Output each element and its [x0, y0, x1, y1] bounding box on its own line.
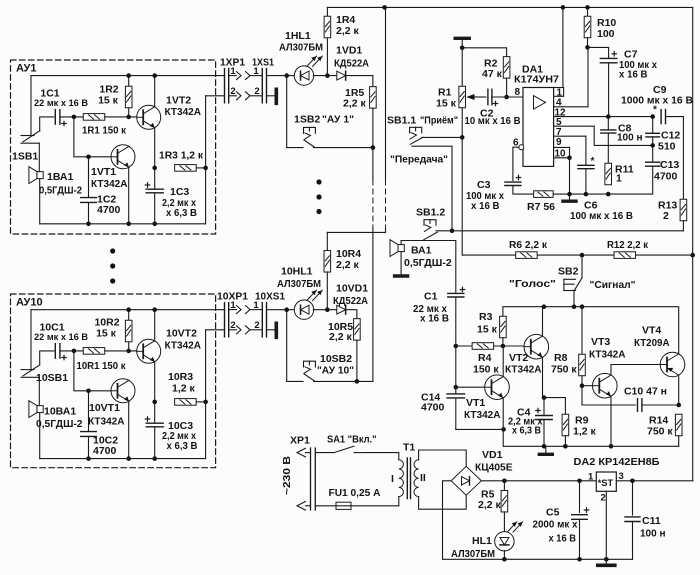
wire C14 to emitter rail — [456, 428, 504, 430]
plug XP1 — [310, 448, 312, 510]
wire VT3 emitter to bottom rail — [610, 397, 612, 447]
wire LED node down to switch 1SB2 — [286, 76, 288, 148]
wire R3 to R4 node — [502, 338, 504, 346]
svg-text:х 6,3 В: х 6,3 В — [167, 441, 198, 452]
resistor R4 — [456, 345, 472, 347]
resistor 10R1 — [83, 348, 105, 355]
svg-text:КТ342А: КТ342А — [88, 416, 125, 428]
wire terminal to node — [461, 40, 463, 48]
plug pin arrows — [297, 448, 306, 457]
subscriber unit box АУ10 — [11, 294, 216, 468]
capacitor C2 — [488, 89, 492, 105]
pushbutton 10SB2 — [287, 380, 303, 382]
svg-text:1: 1 — [253, 66, 259, 77]
svg-text:1ВА1: 1ВА1 — [47, 171, 73, 183]
svg-text:R3: R3 — [479, 311, 493, 323]
wire 1C1 to switch pivot — [40, 117, 54, 131]
speaker BA1 — [398, 245, 404, 252]
speaker 1ВА1 — [37, 172, 43, 179]
connector 1ХР1/1XS1 — [224, 69, 226, 103]
svg-text:10ВА1: 10ВА1 — [44, 406, 76, 418]
svg-text:1: 1 — [616, 173, 622, 185]
svg-text:КТ342А: КТ342А — [505, 364, 542, 376]
wire LED to diode — [313, 75, 337, 77]
svg-text:2,2 к: 2,2 к — [343, 97, 367, 109]
wire 10VT2 collector to top rail — [154, 310, 156, 341]
svg-text:150 к: 150 к — [473, 364, 499, 376]
svg-text:АУ10: АУ10 — [16, 297, 43, 309]
line terminal bar — [274, 323, 278, 337]
resistor 10R3 — [175, 399, 197, 406]
svg-text:КТ342А: КТ342А — [91, 178, 128, 190]
wire VT3 base node down to C10 — [582, 386, 635, 405]
capacitor C6 — [578, 165, 594, 168]
wire 1VT2 collector to top rail — [154, 76, 156, 107]
resistor 10R4 — [326, 232, 328, 250]
svg-text:DA2 КР142ЕН8Б: DA2 КР142ЕН8Б — [574, 456, 660, 468]
svg-text:VT2: VT2 — [509, 352, 528, 364]
svg-text:100: 100 — [597, 28, 615, 40]
wire VT3 base — [582, 385, 593, 387]
switch SB1.1 — [410, 127, 422, 133]
svg-text:1R3 1,2 к: 1R3 1,2 к — [159, 150, 204, 162]
transformer core — [406, 458, 408, 499]
resistor R6 — [516, 252, 538, 259]
capacitor C10 — [638, 399, 642, 412]
svg-text:C5: C5 — [546, 507, 560, 519]
svg-text:HL1: HL1 — [472, 535, 492, 547]
resistor R7 — [534, 191, 554, 198]
svg-text:10VD1: 10VD1 — [336, 283, 368, 295]
wire LED node down to 10SB2 — [286, 310, 288, 382]
wire R13 down to common wire — [682, 221, 684, 231]
capacitor C14 — [455, 387, 457, 429]
wire pin7 down through C6 — [585, 136, 587, 194]
wire amplifier bottom rail — [503, 445, 679, 447]
resistor R2 — [503, 57, 510, 79]
svg-text:R7 56: R7 56 — [527, 201, 555, 213]
resistor R3 — [500, 316, 507, 338]
wire top rail АУ1 — [31, 75, 225, 77]
svg-text:I: I — [391, 473, 394, 485]
transistor VT3 — [593, 373, 618, 398]
wire secondary top to bridge — [419, 450, 467, 466]
wire SB1.1 lower contact to SB1.2 node — [412, 146, 452, 231]
switch SA1 — [315, 452, 334, 454]
svg-text:750 к: 750 к — [551, 364, 577, 376]
wire VT3 collector to VT4 base — [611, 365, 661, 375]
wire left drop to switch 10SB1 — [30, 310, 32, 370]
svg-text:0,5ГДШ-2: 0,5ГДШ-2 — [39, 185, 82, 197]
svg-text:100 мк х 16 В: 100 мк х 16 В — [570, 211, 633, 222]
switch SB1.2 — [424, 220, 436, 226]
svg-text:VT4: VT4 — [642, 325, 661, 337]
svg-text:C6: C6 — [584, 200, 598, 212]
wire switch to speaker — [38, 377, 40, 405]
svg-text:SB1.2: SB1.2 — [416, 206, 445, 218]
fuse FU1 — [315, 505, 336, 507]
resistor 1R4 — [326, 7, 328, 75]
wire C13 down to ground wire — [651, 167, 653, 195]
svg-text:R8: R8 — [554, 352, 568, 364]
pin 5 — [554, 126, 653, 145]
svg-text:10VT1: 10VT1 — [89, 402, 120, 414]
resistor R14 — [675, 414, 682, 436]
wire bridge plus to DA2 — [481, 480, 596, 482]
transformer T1 secondary winding — [414, 460, 419, 497]
capacitor 10С2 — [88, 391, 90, 459]
wire C9 right and down to R13 — [666, 117, 684, 200]
svg-text:0,5ГДШ-2: 0,5ГДШ-2 — [404, 257, 452, 269]
wire R6-R12 row — [462, 254, 693, 256]
LED 10HL1 — [294, 300, 313, 319]
svg-text:2,2 к: 2,2 к — [478, 499, 502, 511]
wire VT4 collector up to voice wire — [678, 307, 680, 354]
wire node down to 10VT1 base — [74, 351, 112, 391]
svg-text:8: 8 — [515, 87, 521, 98]
svg-text:х 16 В: х 16 В — [619, 70, 648, 81]
wire common line to R13 — [452, 230, 683, 232]
resistor R9 — [562, 414, 569, 436]
pin 9 — [554, 146, 570, 148]
capacitor C9 — [661, 110, 665, 124]
resistor 1R2 — [128, 76, 130, 117]
svg-text:R12 2,2 к: R12 2,2 к — [607, 239, 649, 251]
wire pin1 to LED 10HL1 — [267, 309, 295, 311]
svg-text:*: * — [591, 156, 595, 167]
svg-text:47 к: 47 к — [482, 68, 503, 80]
wire bottom rail АУ10 — [40, 458, 206, 460]
capacitor C1 — [448, 293, 464, 297]
wire C1 right to node and 1R1 — [60, 116, 83, 118]
wire 10R5 down to node — [356, 340, 358, 381]
svg-text:1HL1: 1HL1 — [285, 30, 311, 42]
wire diode to 10R5 — [346, 310, 357, 319]
svg-text:"АУ 10": "АУ 10" — [317, 365, 354, 377]
wire SB1.2 lower contact to C1 line — [424, 241, 456, 293]
wire pin2 to line terminal — [267, 95, 275, 97]
svg-text:10R3: 10R3 — [168, 371, 193, 383]
wire R14 to bottom rail — [678, 436, 680, 447]
svg-text:VT3: VT3 — [591, 336, 610, 348]
svg-text:КД522А: КД522А — [334, 58, 369, 70]
svg-text:10R1 150 к: 10R1 150 к — [77, 360, 127, 372]
potentiometer R1 — [461, 48, 463, 87]
svg-text:1: 1 — [588, 472, 594, 483]
IC DA2 КР142ЕН8Б — [596, 472, 616, 491]
svg-text:4700: 4700 — [421, 402, 445, 414]
svg-text:10SB2: 10SB2 — [320, 353, 352, 365]
resistor R10 — [587, 7, 589, 16]
wire 1VT1 emitter to bottom rail — [128, 167, 130, 224]
line terminal bar top — [455, 37, 469, 40]
svg-text:R6 2,2 к: R6 2,2 к — [509, 239, 548, 251]
wire C1 right to node and 1R1 — [60, 350, 83, 352]
resistor 1R1 — [83, 114, 105, 121]
svg-text:C11: C11 — [642, 515, 661, 527]
svg-text:1VT1: 1VT1 — [91, 166, 116, 178]
svg-text:1: 1 — [230, 66, 236, 77]
svg-text:SB1.1: SB1.1 — [387, 114, 416, 126]
wire pin2 to line terminal — [267, 329, 275, 331]
svg-text:2,2 к: 2,2 к — [336, 25, 360, 37]
wire VT1 emitter down — [502, 398, 504, 446]
pin 10 compartment — [554, 147, 570, 157]
wire R8 to VT3 base node — [581, 376, 583, 386]
wire 10C1 to switch pivot — [40, 351, 54, 365]
svg-text:22 мк х 16 В: 22 мк х 16 В — [34, 332, 88, 343]
svg-text:R4: R4 — [478, 352, 492, 364]
wire R7 to ground node — [553, 193, 651, 195]
wire long line down to unit10 switch node — [372, 148, 374, 180]
wire 10VT2 emitter down through 10C3 — [154, 362, 156, 459]
wire pin1 up to rail — [563, 88, 565, 97]
transistor VT1 — [485, 375, 510, 400]
svg-text:0,5ГДШ-2: 0,5ГДШ-2 — [36, 418, 83, 430]
svg-text:1R1 150 к: 1R1 150 к — [82, 125, 127, 137]
ground bar BA1 — [395, 274, 408, 277]
svg-text:SB2: SB2 — [558, 266, 579, 278]
IC DA1 К174УН7 box — [523, 88, 554, 167]
wire SB2 contact down to voice wire — [573, 291, 575, 307]
svg-text:10 мк х 16 В: 10 мк х 16 В — [465, 116, 521, 127]
wire R2 to pin 8 — [506, 78, 508, 97]
svg-text:10SB1: 10SB1 — [36, 372, 68, 384]
wire right side vertical to pin2 — [205, 330, 207, 459]
wire node to R2 — [462, 48, 506, 57]
wire supply bottom rail — [504, 558, 632, 560]
svg-text:10HL1: 10HL1 — [281, 266, 313, 278]
svg-text:~230 В: ~230 В — [282, 456, 293, 495]
svg-text:4700: 4700 — [97, 204, 121, 216]
wire SB1.2 arm to node — [436, 230, 452, 232]
transistor 10VT1 — [111, 379, 135, 403]
svg-text:10: 10 — [555, 148, 567, 159]
svg-text:"Сигнал": "Сигнал" — [590, 279, 636, 291]
transistor VT2 — [524, 334, 549, 359]
wire VT2 emitter down to node A — [542, 358, 544, 398]
svg-text:2: 2 — [254, 86, 259, 97]
svg-text:х 16 В: х 16 В — [420, 314, 449, 325]
capacitor 1С3 — [146, 189, 163, 193]
svg-text:КТ342А: КТ342А — [464, 409, 501, 421]
svg-text:C13: C13 — [660, 159, 679, 171]
bridge rectifier VD1 — [451, 466, 481, 495]
wire pin4 up to R10 node — [587, 47, 589, 106]
svg-text:II: II — [420, 472, 426, 484]
pin 4 — [554, 106, 588, 108]
svg-text:15 к: 15 к — [477, 324, 498, 336]
svg-text:15 к: 15 к — [436, 98, 457, 110]
wire diode to 1R5 — [346, 76, 373, 87]
wire riser from top rail down to 10R4 — [385, 7, 387, 180]
capacitor C7 — [600, 58, 617, 62]
wire top rail АУ10 — [31, 309, 225, 311]
capacitor C8 — [607, 117, 609, 130]
svg-text:х 16 В: х 16 В — [549, 534, 577, 545]
wire right side vertical to pin2 — [205, 96, 207, 224]
svg-text:КТ342А: КТ342А — [165, 340, 202, 352]
wire C3 to R7 — [513, 186, 533, 195]
wire R10 node to C7 — [588, 47, 609, 58]
svg-text:10XS1: 10XS1 — [255, 290, 285, 302]
wire node A to R9 — [544, 398, 565, 415]
svg-text:10VT2: 10VT2 — [166, 328, 197, 340]
wire bridge minus to bottom rail — [443, 481, 505, 560]
pin lines and numbers right side — [554, 95, 564, 97]
wire switch to speaker — [38, 143, 40, 171]
transistor 1VT1 — [111, 145, 135, 169]
LED 1HL1 — [294, 66, 313, 85]
wire DA2 pin2 to ground — [605, 491, 607, 559]
wire HL1 to bottom rail — [503, 551, 505, 560]
svg-text:750 к: 750 к — [647, 426, 673, 438]
svg-text:1VT2: 1VT2 — [166, 95, 191, 107]
wire C1 line down to VT1 base — [455, 297, 457, 387]
wire R1 node down to R6 wire — [461, 137, 463, 255]
wire R5 to LED HL1 — [503, 512, 505, 532]
wire secondary bottom to bridge — [419, 495, 467, 509]
wire bottom rail АУ1 — [40, 223, 206, 225]
capacitor C3 — [505, 182, 521, 185]
svg-text:VT1: VT1 — [466, 397, 485, 409]
svg-text:КЦ405Е: КЦ405Е — [475, 462, 513, 474]
wire VT4 emitter down to C10 node — [678, 375, 680, 405]
svg-text:КТ209А: КТ209А — [634, 337, 670, 349]
capacitor C5 — [579, 481, 581, 513]
svg-text:C3: C3 — [477, 179, 491, 191]
wire pin2 pickup — [206, 329, 225, 331]
svg-text:2: 2 — [230, 320, 235, 331]
capacitor C11 — [632, 481, 634, 515]
capacitor C13 — [652, 145, 654, 161]
wire right rail down to DA2 output — [692, 255, 694, 481]
wire top supply rail — [327, 7, 692, 255]
wire pins 9-10 to ground — [569, 158, 571, 194]
wire pin6 to C3 — [513, 147, 519, 180]
svg-text:4700: 4700 — [654, 171, 678, 183]
svg-text:C7: C7 — [624, 49, 638, 61]
svg-text:*ST: *ST — [598, 478, 614, 488]
svg-text:2: 2 — [230, 86, 235, 97]
svg-text:1: 1 — [230, 300, 236, 311]
capacitor 1С2 — [88, 157, 90, 224]
svg-text:ВА1: ВА1 — [411, 245, 432, 257]
ground bar DA1 — [569, 194, 571, 199]
wire C7 down to pin12 wire — [608, 63, 610, 117]
wire left drop to switch 1SB1 — [30, 76, 32, 136]
wire VT1 base — [456, 386, 486, 388]
pin 12 — [554, 116, 653, 118]
resistor 10R2 — [128, 310, 130, 351]
pushbutton 10SB1 — [21, 369, 34, 371]
resistor 10R5 — [354, 319, 361, 341]
resistor R11 — [605, 163, 612, 185]
pin 7 — [554, 135, 586, 137]
ellipsis middle column — [316, 179, 321, 184]
ground bar supply — [605, 559, 607, 563]
pushbutton 1SB1 — [21, 135, 34, 137]
svg-text:1,2 к: 1,2 к — [573, 426, 597, 438]
svg-text:C9: C9 — [653, 84, 667, 96]
svg-text:АУ1: АУ1 — [16, 63, 37, 75]
wire 10VT1 emitter to bottom rail — [128, 401, 130, 458]
svg-text:"Голос": "Голос" — [509, 278, 556, 290]
op-amp triangle — [534, 96, 546, 110]
capacitor C4 — [543, 398, 545, 447]
resistor 1R5 — [370, 87, 377, 109]
svg-text:АЛ307БМ: АЛ307БМ — [277, 278, 321, 290]
speaker 10ВА1 — [37, 406, 43, 413]
svg-text:9: 9 — [556, 137, 562, 148]
resistor 1R3 — [175, 165, 197, 172]
wire node down to 1VT1 base — [74, 117, 112, 157]
capacitor 10С1 — [55, 344, 60, 359]
svg-text:100 н: 100 н — [617, 133, 643, 144]
wire node right and up to long line — [357, 380, 373, 382]
diode 1VD1 — [337, 71, 346, 80]
wire pin2 pickup — [206, 95, 225, 97]
wire 1VT2 emitter down through 1C3 — [154, 128, 156, 224]
resistor R8 — [581, 307, 583, 355]
svg-text:"АУ 1": "АУ 1" — [322, 113, 354, 125]
transformer T1 primary winding — [399, 460, 404, 497]
svg-text:2: 2 — [254, 320, 259, 331]
svg-text:Т1: Т1 — [403, 442, 415, 454]
svg-text:КД522А: КД522А — [333, 296, 369, 307]
svg-text:1С3: 1С3 — [170, 186, 189, 198]
svg-text:15 к: 15 к — [96, 328, 117, 340]
svg-text:C1: C1 — [424, 291, 438, 303]
svg-text:1SB2: 1SB2 — [294, 113, 320, 125]
pin 6 bubble — [519, 145, 524, 150]
wire to speaker BA1 — [401, 240, 424, 242]
svg-text:22 мк х 16 В: 22 мк х 16 В — [34, 98, 88, 109]
svg-text:АЛ307БМ: АЛ307БМ — [279, 42, 323, 54]
svg-text:К174УН7: К174УН7 — [514, 74, 559, 86]
svg-text:х 6,3 В: х 6,3 В — [512, 426, 541, 437]
wire 1R5 down to node — [372, 108, 374, 148]
resistor R13 — [680, 199, 687, 221]
subscriber unit box АУ1 — [11, 60, 216, 234]
svg-text:C10 47 н: C10 47 н — [624, 386, 667, 398]
svg-text:КТ342А: КТ342А — [589, 349, 626, 361]
svg-text:х 16 В: х 16 В — [471, 201, 500, 212]
wire SB1.1 to R1 node — [422, 136, 463, 138]
connector 10ХР1/10XS1 — [224, 303, 226, 337]
line terminal bar — [274, 89, 278, 103]
wire VT2 collector up to voice wire — [542, 307, 544, 336]
svg-text:1SB1: 1SB1 — [12, 151, 38, 163]
wiper arrow from C2 to R1 — [474, 96, 486, 98]
svg-text:15 к: 15 к — [98, 95, 119, 107]
wire DA2 output to right rail — [616, 480, 692, 482]
diode 10VD1 — [337, 305, 346, 314]
pushbutton 1SB2 — [287, 147, 303, 149]
svg-text:1000 мк х 16 В: 1000 мк х 16 В — [621, 96, 693, 107]
svg-text:FU1 0,25 А: FU1 0,25 А — [329, 487, 381, 499]
svg-text:2000 мк х: 2000 мк х — [533, 520, 578, 531]
wire 10R4 feed — [327, 231, 385, 233]
wire R3 top row — [503, 307, 678, 317]
resistor R12 — [614, 252, 636, 259]
svg-text:"Приём": "Приём" — [420, 114, 458, 126]
ground bar amplifier — [545, 446, 547, 452]
svg-text:АЛ307БМ: АЛ307БМ — [451, 548, 495, 560]
svg-text:1: 1 — [253, 300, 259, 311]
svg-text:2: 2 — [601, 493, 606, 504]
wire LED to diode 10VD1 — [313, 309, 337, 311]
